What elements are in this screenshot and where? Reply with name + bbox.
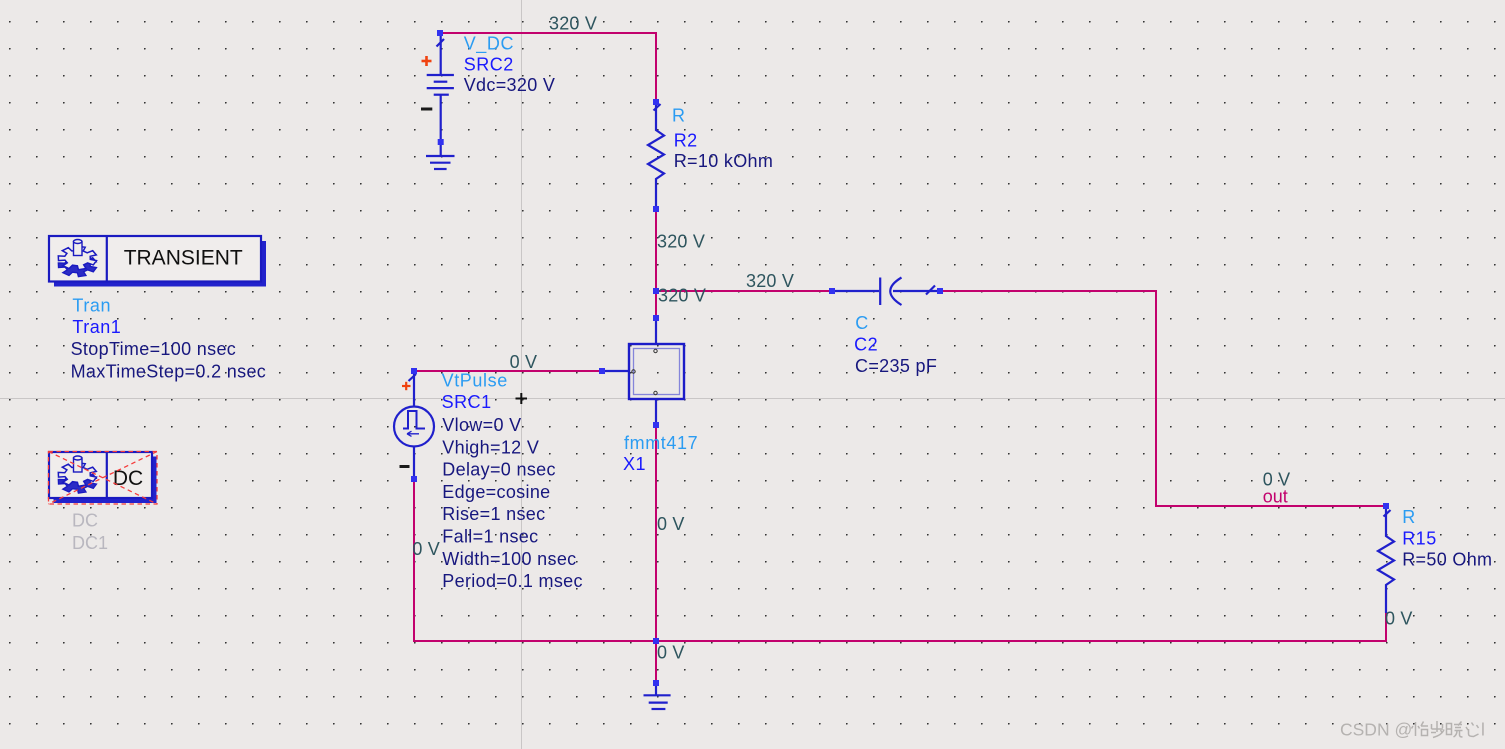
svg-text:Tran: Tran: [72, 296, 111, 316]
svg-text:SRC2: SRC2: [464, 54, 514, 74]
svg-text:320 V: 320 V: [549, 13, 597, 33]
svg-text:0 V: 0 V: [1385, 609, 1413, 629]
svg-text:Vdc=320 V: Vdc=320 V: [464, 75, 556, 95]
svg-text:0 V: 0 V: [657, 643, 685, 663]
svg-text:R2: R2: [674, 131, 698, 151]
svg-text:R=50 Ohm: R=50 Ohm: [1402, 550, 1492, 570]
svg-text:Edge=cosine: Edge=cosine: [442, 482, 550, 502]
svg-text:320 V: 320 V: [746, 271, 794, 291]
svg-text:Width=100 nsec: Width=100 nsec: [442, 549, 576, 569]
svg-text:CSDN @: CSDN @: [1340, 720, 1412, 740]
svg-text:320 V: 320 V: [657, 232, 705, 252]
svg-text:MaxTimeStep=0.2 nsec: MaxTimeStep=0.2 nsec: [71, 362, 267, 382]
svg-text:0 V: 0 V: [657, 514, 685, 534]
svg-text:V_DC: V_DC: [464, 34, 514, 55]
svg-text:R: R: [1402, 507, 1416, 527]
svg-text:Rise=1 nsec: Rise=1 nsec: [442, 504, 545, 524]
svg-text:Vhigh=12 V: Vhigh=12 V: [442, 437, 539, 457]
svg-text:R=10 kOhm: R=10 kOhm: [674, 151, 774, 171]
svg-text:R15: R15: [1402, 528, 1437, 548]
svg-text:StopTime=100 nsec: StopTime=100 nsec: [71, 339, 237, 359]
svg-text:Fall=1 nsec: Fall=1 nsec: [442, 527, 538, 547]
svg-text:Tran1: Tran1: [72, 317, 121, 337]
svg-text:C=235 pF: C=235 pF: [855, 356, 937, 376]
svg-text:TRANSIENT: TRANSIENT: [124, 247, 243, 270]
svg-text:0 V: 0 V: [412, 539, 440, 559]
svg-text:out: out: [1263, 486, 1288, 506]
svg-text:DC: DC: [72, 511, 98, 531]
svg-text:320 V: 320 V: [658, 286, 706, 306]
svg-text:0 V: 0 V: [510, 352, 538, 372]
svg-text:l: l: [1481, 720, 1485, 740]
svg-text:Delay=0 nsec: Delay=0 nsec: [442, 460, 556, 480]
svg-text:R: R: [672, 106, 686, 126]
svg-text:C: C: [855, 313, 869, 333]
svg-text:fmmt417: fmmt417: [624, 433, 698, 453]
svg-text:SRC1: SRC1: [442, 392, 492, 412]
svg-text:Period=0.1 msec: Period=0.1 msec: [442, 571, 583, 591]
svg-text:Vlow=0 V: Vlow=0 V: [442, 415, 521, 435]
svg-text:X1: X1: [623, 454, 646, 474]
svg-text:C2: C2: [854, 334, 878, 354]
svg-text:DC1: DC1: [72, 533, 108, 553]
svg-text:VtPulse: VtPulse: [442, 371, 508, 391]
